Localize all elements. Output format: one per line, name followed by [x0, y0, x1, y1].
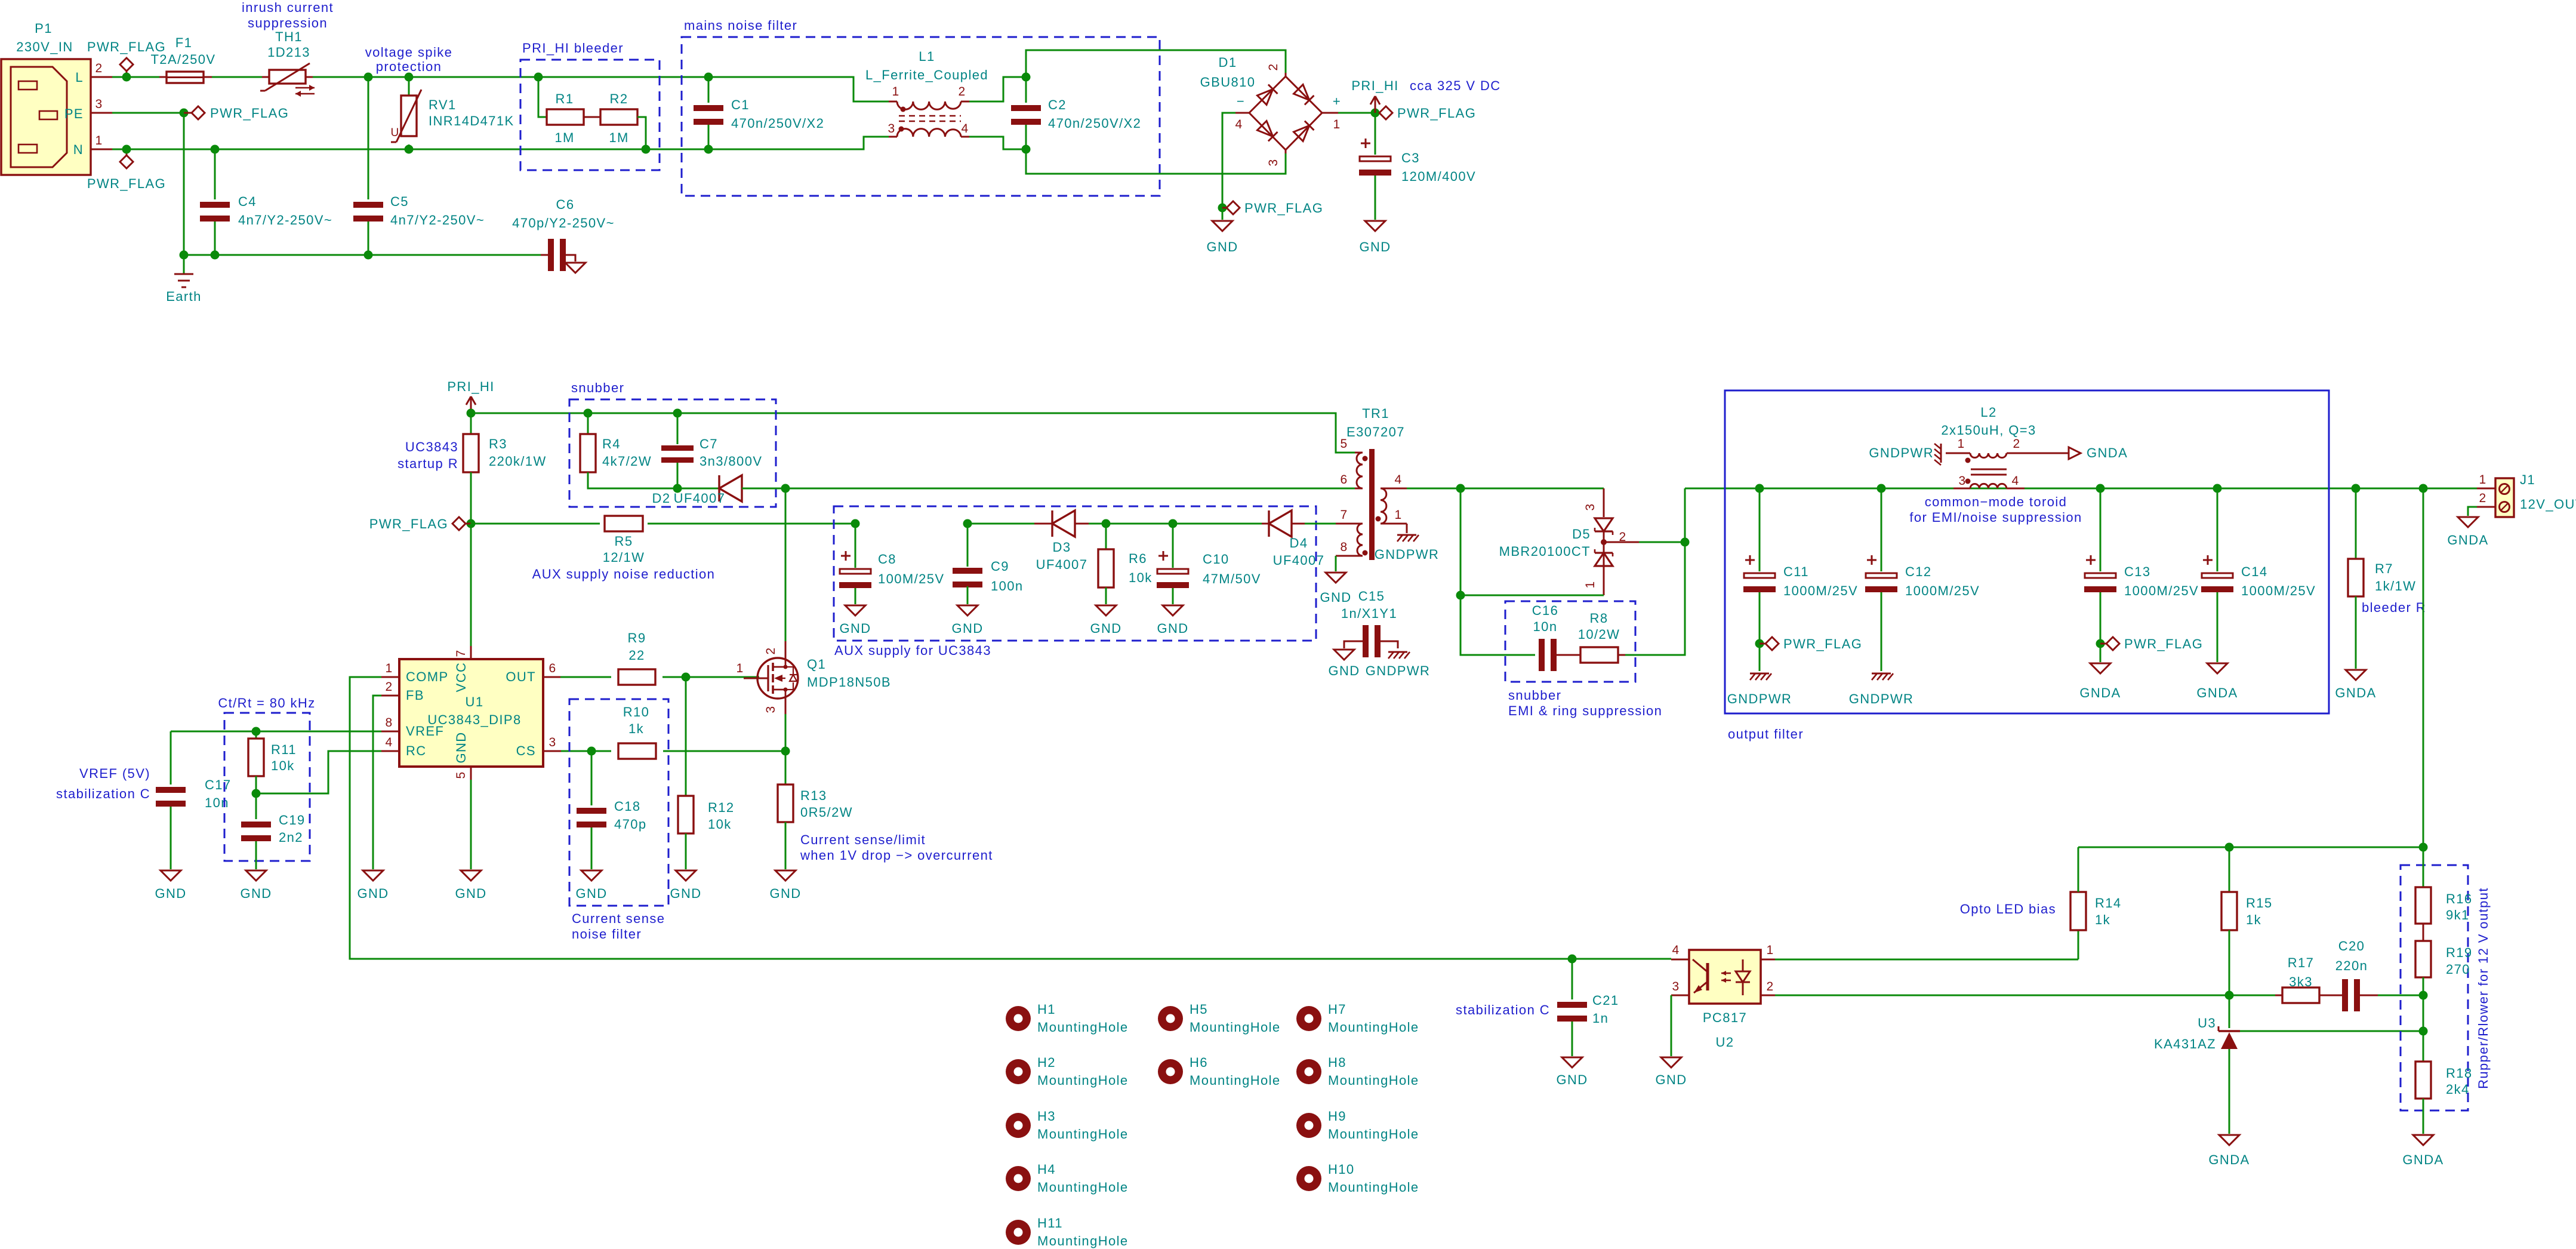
svg-text:H9: H9	[1328, 1109, 1346, 1124]
svg-text:1M: 1M	[554, 130, 574, 145]
svg-text:Ct/Rt = 80 kHz: Ct/Rt = 80 kHz	[218, 696, 315, 710]
wire L P1 to F1	[112, 76, 159, 78]
svg-text:inrush current: inrush current	[242, 0, 334, 15]
capacitor C3 120M/400V	[1360, 156, 1391, 161]
svg-text:GNDA: GNDA	[2208, 1152, 2250, 1167]
svg-text:GNDPWR: GNDPWR	[1727, 691, 1792, 706]
svg-text:H2: H2	[1037, 1055, 1056, 1070]
ground GNDPWR at TR1 pin1	[1406, 524, 1408, 533]
svg-text:R2: R2	[610, 91, 628, 106]
svg-text:3: 3	[1672, 980, 1680, 993]
junction C10 top	[1169, 519, 1178, 528]
resistor R6 10k	[1105, 524, 1107, 549]
svg-text:R10: R10	[623, 705, 650, 719]
svg-text:5: 5	[1340, 437, 1348, 451]
resistor R18 2k4	[2415, 1062, 2431, 1099]
svg-text:EMI & ring suppression: EMI & ring suppression	[1508, 703, 1662, 718]
capacitor C2 470n/250V/X2	[1025, 77, 1027, 103]
svg-text:10n: 10n	[205, 795, 229, 810]
svg-text:C15: C15	[1358, 589, 1385, 604]
wire RC to R11	[256, 751, 381, 793]
power flag PWR_FLAG on N	[126, 149, 128, 156]
svg-text:R16: R16	[2446, 891, 2473, 906]
svg-text:R15: R15	[2246, 896, 2273, 910]
svg-text:GNDPWR: GNDPWR	[1375, 547, 1440, 562]
svg-text:PWR_FLAG: PWR_FLAG	[1397, 106, 1476, 121]
svg-text:D3: D3	[1053, 540, 1071, 555]
wire Q1 source to CS node	[785, 714, 787, 751]
svg-text:MountingHole: MountingHole	[1037, 1073, 1129, 1088]
svg-text:CS: CS	[516, 743, 536, 758]
mounting hole H4	[1006, 1166, 1031, 1191]
diode D3 UF4007	[967, 523, 1034, 525]
svg-text:3: 3	[764, 705, 778, 713]
wire C2 to bridge AC bottom	[1026, 149, 1286, 174]
svg-text:C6: C6	[556, 197, 575, 212]
ground GND at C15 left	[1334, 650, 1354, 660]
junction C11 pwrflag	[1755, 639, 1764, 648]
resistor R17 3k3	[2275, 995, 2282, 996]
capacitor C8 100M/25V	[851, 519, 860, 528]
wire switch node to TR1 pin6	[785, 488, 1355, 490]
ground GND under C19	[246, 870, 266, 881]
wire bridge plus to C3	[1338, 112, 1381, 114]
power flag PWR_FLAG on L	[126, 70, 128, 77]
wire top feedback row	[2078, 847, 2423, 848]
junction R6 top	[1102, 519, 1111, 528]
svg-text:GND: GND	[1655, 1072, 1687, 1087]
svg-text:Opto LED bias: Opto LED bias	[1960, 902, 2056, 916]
wire D5 pin1 to secondary node	[1460, 595, 1604, 596]
capacitor C20 220n	[2319, 995, 2342, 996]
wire aux rail C9 to D3	[647, 519, 649, 521]
svg-text:when 1V drop −> overcurrent: when 1V drop −> overcurrent	[800, 848, 993, 863]
svg-text:PWR_FLAG: PWR_FLAG	[1244, 201, 1323, 216]
svg-text:1: 1	[2479, 473, 2486, 487]
junction R15 to pin2 row	[2225, 991, 2234, 1000]
svg-text:3n3/800V: 3n3/800V	[700, 454, 762, 469]
svg-text:L2: L2	[1980, 405, 1996, 420]
svg-text:22: 22	[628, 648, 645, 663]
svg-text:R17: R17	[2288, 955, 2315, 970]
svg-text:2x150uH, Q=3: 2x150uH, Q=3	[1941, 423, 2036, 438]
junction C1 bottom	[704, 145, 713, 154]
svg-text:C1: C1	[731, 97, 750, 112]
wire CS row	[561, 750, 611, 752]
svg-text:12/1W: 12/1W	[603, 550, 645, 565]
svg-text:1n: 1n	[1592, 1011, 1609, 1026]
svg-text:bleeder R: bleeder R	[2362, 600, 2426, 615]
svg-text:PWR_FLAG: PWR_FLAG	[1783, 636, 1862, 651]
svg-text:C8: C8	[878, 552, 896, 567]
svg-text:MountingHole: MountingHole	[1190, 1020, 1281, 1035]
svg-text:R12: R12	[708, 800, 735, 815]
svg-text:H5: H5	[1190, 1002, 1208, 1017]
svg-text:MountingHole: MountingHole	[1037, 1233, 1129, 1248]
svg-text:mains noise filter: mains noise filter	[684, 18, 797, 33]
svg-text:FB: FB	[406, 688, 424, 703]
svg-text:H8: H8	[1328, 1055, 1346, 1070]
junction gate node	[682, 673, 691, 682]
svg-text:1: 1	[385, 662, 393, 675]
svg-text:C17: C17	[205, 777, 232, 792]
svg-text:1000M/25V: 1000M/25V	[2124, 583, 2199, 598]
dashed box Rupper/Rlower	[2401, 865, 2468, 1110]
svg-text:GND: GND	[951, 621, 983, 636]
junction earth PE	[180, 251, 189, 260]
svg-text:4: 4	[2011, 474, 2019, 488]
svg-text:UC3843_DIP8: UC3843_DIP8	[427, 712, 521, 727]
resistor R3 220k/1W	[470, 413, 472, 434]
svg-text:GND: GND	[839, 621, 871, 636]
wire feedback column	[2423, 488, 2424, 847]
svg-text:VCC: VCC	[454, 662, 469, 693]
capacitor C4 4n7/Y2-250V~	[214, 149, 216, 199]
dashed box Ct/Rt	[224, 713, 310, 861]
svg-text:U1: U1	[466, 694, 484, 709]
svg-text:1k: 1k	[628, 721, 644, 736]
svg-text:2: 2	[2013, 437, 2020, 451]
svg-text:U2: U2	[1716, 1035, 1734, 1050]
svg-text:270: 270	[2446, 962, 2470, 977]
svg-text:C16: C16	[1532, 603, 1559, 618]
resistor R10 1k	[618, 743, 656, 759]
junction VCC node	[467, 519, 476, 528]
svg-text:Rupper/Rlower for 12 V output: Rupper/Rlower for 12 V output	[2476, 887, 2491, 1089]
svg-text:GND: GND	[240, 886, 272, 901]
svg-text:100n: 100n	[991, 579, 1024, 593]
capacitor C21 1n	[1572, 959, 1573, 999]
svg-text:10/2W: 10/2W	[1578, 627, 1620, 642]
svg-text:120M/400V: 120M/400V	[1401, 169, 1476, 184]
svg-text:MountingHole: MountingHole	[1037, 1127, 1129, 1142]
svg-text:C14: C14	[2241, 564, 2268, 579]
solid box output filter	[1725, 390, 2329, 713]
capacitor C7 3n3/800V	[677, 413, 679, 444]
ground GND under bridge	[1212, 221, 1232, 231]
wire output node up to rail	[1684, 488, 1686, 542]
capacitor C19 2n2	[255, 793, 257, 819]
power symbol GNDA under C14	[2207, 663, 2227, 673]
junction C20 node	[2419, 991, 2428, 1000]
svg-text:GND: GND	[155, 886, 186, 901]
svg-text:C12: C12	[1905, 564, 1932, 579]
ground GND under R13	[775, 870, 796, 881]
ground GND under C10	[1163, 605, 1183, 616]
capacitor C10 47M/50V	[1172, 524, 1174, 568]
svg-text:C9: C9	[991, 559, 1009, 574]
svg-text:for EMI/noise suppression: for EMI/noise suppression	[1909, 510, 2082, 525]
svg-text:1k/1W: 1k/1W	[2375, 579, 2416, 593]
wire R6 to C10	[1106, 523, 1173, 525]
svg-text:3: 3	[888, 122, 895, 136]
junction D5 pin1 node	[1456, 591, 1465, 600]
dashed box PRI_HI bleeder	[520, 60, 660, 170]
junction C1 top	[704, 73, 713, 82]
resistor R11 10k	[255, 731, 257, 739]
svg-text:GNDPWR: GNDPWR	[1366, 663, 1431, 678]
wire U2 pin1 to R14	[1775, 959, 2078, 961]
bridge rectifier D1 GBU810	[1285, 73, 1287, 76]
resistor R4 4k7/2W	[587, 413, 589, 434]
junction PRI_HI node	[1371, 109, 1380, 118]
svg-text:1n/X1Y1: 1n/X1Y1	[1341, 606, 1397, 621]
svg-text:AUX supply noise reduction: AUX supply noise reduction	[532, 567, 716, 582]
svg-text:GND: GND	[1556, 1072, 1588, 1087]
resistor R16 9k1	[2423, 847, 2424, 887]
varistor RV1 INR14D471K	[408, 77, 410, 96]
mounting hole H5	[1158, 1006, 1183, 1031]
svg-text:10k: 10k	[1129, 570, 1153, 585]
svg-text:GND: GND	[1320, 590, 1351, 605]
svg-text:PE: PE	[64, 106, 84, 121]
wire U3 ref	[2240, 1030, 2423, 1032]
dashed box snubber	[569, 399, 776, 507]
svg-text:C10: C10	[1203, 552, 1230, 567]
svg-text:2k4: 2k4	[2446, 1082, 2470, 1097]
svg-text:D4: D4	[1290, 536, 1308, 550]
svg-text:R6: R6	[1129, 551, 1147, 566]
wire secondary node down	[1460, 488, 1535, 655]
svg-text:L1: L1	[919, 49, 935, 64]
svg-text:1: 1	[1333, 118, 1341, 131]
svg-text:2: 2	[764, 647, 778, 654]
dashed box AUX supply	[834, 506, 1316, 641]
svg-text:C21: C21	[1592, 993, 1619, 1008]
junction C18 tap	[587, 747, 596, 756]
svg-text:stabilization C: stabilization C	[56, 786, 150, 801]
svg-text:GND: GND	[357, 886, 389, 901]
svg-text:COMP: COMP	[406, 669, 449, 684]
svg-text:R13: R13	[800, 788, 827, 803]
svg-text:C13: C13	[2124, 564, 2151, 579]
svg-text:9k1: 9k1	[2446, 907, 2470, 922]
svg-text:4: 4	[385, 736, 393, 749]
junction minus gnd	[1218, 204, 1227, 213]
junction C7 bottom	[673, 484, 682, 493]
wire bridge minus to GND	[1222, 113, 1235, 220]
svg-text:output filter: output filter	[1728, 727, 1804, 742]
svg-text:UC3843: UC3843	[405, 439, 458, 454]
ground GND under C3	[1365, 221, 1385, 231]
svg-text:PRI_HI: PRI_HI	[447, 379, 494, 394]
svg-text:220k/1W: 220k/1W	[489, 454, 547, 469]
svg-text:3: 3	[549, 736, 556, 749]
wire snubber right leg	[1625, 542, 1685, 655]
svg-text:stabilization C: stabilization C	[1456, 1002, 1550, 1017]
power flag PWR_FLAG at C11	[1760, 643, 1766, 645]
ground GND under C18	[581, 870, 602, 881]
capacitor C1 470n/250V/X2	[708, 77, 710, 103]
dashed box snubber EMI	[1505, 601, 1635, 682]
svg-text:GND: GND	[769, 886, 801, 901]
svg-text:PWR_FLAG: PWR_FLAG	[369, 516, 448, 531]
svg-text:common−mode toroid: common−mode toroid	[1925, 494, 2067, 509]
svg-text:4n7/Y2-250V~: 4n7/Y2-250V~	[238, 213, 332, 227]
svg-text:2: 2	[958, 85, 966, 99]
svg-text:12V_OUT: 12V_OUT	[2520, 497, 2576, 512]
ground GND at C6	[565, 263, 586, 273]
power flag PWR_FLAG at PRI_HI	[1379, 106, 1392, 119]
svg-text:1: 1	[1583, 580, 1597, 588]
svg-text:T2A/250V: T2A/250V	[150, 52, 215, 67]
junction R15 top	[2225, 843, 2234, 852]
svg-text:−: −	[1237, 94, 1245, 109]
svg-text:3: 3	[1583, 503, 1597, 510]
mounting hole H11	[1006, 1220, 1031, 1245]
resistor R9 22	[560, 676, 611, 678]
svg-text:4: 4	[1394, 473, 1402, 487]
power symbol GNDA under R7	[2346, 670, 2366, 680]
svg-text:8: 8	[385, 716, 393, 730]
svg-text:Current sense: Current sense	[572, 911, 665, 926]
wire J1 pin2 to GNDA	[2468, 507, 2477, 516]
svg-text:C20: C20	[2338, 939, 2365, 953]
svg-text:C7: C7	[700, 436, 718, 451]
junction R4 top	[584, 409, 593, 418]
svg-text:suppression: suppression	[248, 16, 328, 30]
inductor L1 L_Ferrite_Coupled	[897, 101, 961, 109]
svg-text:MDP18N50B: MDP18N50B	[807, 675, 891, 690]
svg-text:MountingHole: MountingHole	[1328, 1180, 1419, 1195]
svg-text:UF4007: UF4007	[1036, 557, 1088, 572]
svg-text:L: L	[75, 70, 84, 85]
svg-text:R18: R18	[2446, 1066, 2473, 1081]
svg-text:PRI_HI: PRI_HI	[1351, 78, 1398, 93]
svg-text:MountingHole: MountingHole	[1328, 1073, 1419, 1088]
junction source node	[781, 747, 790, 756]
capacitor C18 470p	[591, 751, 593, 805]
svg-text:PWR_FLAG: PWR_FLAG	[87, 176, 166, 191]
svg-text:7: 7	[454, 649, 468, 657]
wire VREF line	[171, 731, 381, 733]
svg-text:1k: 1k	[2095, 912, 2110, 927]
svg-text:0R5/2W: 0R5/2W	[800, 805, 853, 820]
ground GND at FB	[363, 870, 383, 881]
junction earth C5	[364, 251, 373, 260]
wire U2 pin3 to GND	[1671, 995, 1672, 1056]
svg-text:3k3: 3k3	[2289, 974, 2313, 989]
svg-text:R7: R7	[2375, 561, 2393, 576]
ground GNDPWR at L2 pin1	[1934, 444, 1941, 465]
svg-text:KA431AZ: KA431AZ	[2154, 1036, 2216, 1051]
mounting hole H9	[1296, 1113, 1321, 1138]
ground GND at U2 pin3	[1661, 1057, 1681, 1068]
svg-text:1k: 1k	[2246, 912, 2261, 927]
capacitor C11 1000M/25V	[1755, 484, 1764, 493]
svg-text:4k7/2W: 4k7/2W	[602, 454, 652, 469]
junction feedback column	[2419, 484, 2428, 493]
optocoupler U2 PC817	[1689, 950, 1761, 1004]
svg-text:GND: GND	[1090, 621, 1121, 636]
junction D2 to drain	[781, 484, 790, 493]
svg-text:GND: GND	[1328, 663, 1360, 678]
ground GNDPWR under C11	[1750, 673, 1769, 675]
svg-text:4: 4	[1235, 118, 1243, 131]
mounting hole H1	[1006, 1006, 1031, 1031]
dashed box mains noise filter	[682, 37, 1160, 196]
svg-text:1: 1	[736, 662, 744, 675]
capacitor C5 4n7/Y2-250V~	[368, 77, 369, 199]
svg-text:470p/Y2-250V~: 470p/Y2-250V~	[512, 216, 615, 230]
svg-text:MBR20100CT: MBR20100CT	[1499, 544, 1591, 559]
svg-text:cca 325 V DC: cca 325 V DC	[1410, 78, 1501, 93]
svg-text:GNDA: GNDA	[2087, 445, 2128, 460]
wire N line	[112, 137, 889, 149]
capacitor C17 10n	[170, 731, 172, 785]
svg-text:GNDA: GNDA	[2079, 685, 2121, 700]
svg-text:Earth: Earth	[166, 289, 202, 304]
svg-text:C5: C5	[390, 194, 409, 209]
svg-text:MountingHole: MountingHole	[1328, 1127, 1419, 1142]
wire TR1 pin4 to secondary node	[1407, 488, 1460, 490]
wire PE	[112, 113, 184, 255]
junction R11 top	[252, 727, 261, 736]
wire secondary node to D5	[1460, 488, 1604, 490]
junction R3 top	[467, 409, 476, 418]
wire output rail	[1685, 488, 2477, 490]
svg-text:1: 1	[1957, 437, 1965, 451]
wire D5 output	[1604, 542, 1639, 543]
ground GND at TR1 pin8	[1326, 573, 1346, 583]
svg-text:H11: H11	[1037, 1216, 1063, 1230]
svg-text:P1: P1	[35, 21, 53, 36]
svg-text:470n/250V/X2: 470n/250V/X2	[1048, 116, 1141, 131]
svg-text:MountingHole: MountingHole	[1328, 1020, 1419, 1035]
svg-text:R11: R11	[271, 742, 297, 757]
svg-text:U: U	[390, 127, 399, 139]
ground GNDPWR under C12	[1872, 673, 1891, 675]
power symbol PRI_HI arrow at bridge	[1375, 97, 1376, 113]
svg-text:10k: 10k	[271, 758, 295, 773]
svg-text:R5: R5	[615, 534, 633, 549]
wire FB to GND	[373, 696, 381, 869]
wire VCC node down to U1 pin7	[470, 524, 472, 646]
svg-text:4: 4	[961, 122, 969, 136]
svg-text:J1: J1	[2520, 472, 2535, 487]
resistor R2 1M	[584, 116, 600, 118]
junction RV1 bottom	[405, 145, 414, 154]
svg-text:U3: U3	[2198, 1016, 2216, 1030]
svg-text:PC817: PC817	[1703, 1010, 1747, 1025]
junction RV1 top	[405, 73, 414, 82]
svg-text:TR1: TR1	[1362, 406, 1389, 421]
svg-text:UF4007: UF4007	[674, 491, 726, 506]
wire U2 pin2 row	[1775, 995, 2275, 996]
svg-text:100M/25V: 100M/25V	[878, 571, 945, 586]
ground GNDPWR at C15 right	[1388, 651, 1407, 653]
svg-text:2: 2	[2479, 491, 2486, 505]
svg-text:2n2: 2n2	[279, 830, 303, 845]
resistor R1 1M	[538, 77, 547, 117]
resistor R8 10/2W	[1557, 654, 1580, 656]
svg-text:Current sense/limit: Current sense/limit	[800, 832, 926, 847]
svg-text:voltage spike: voltage spike	[365, 45, 453, 60]
connector P1 230V_IN	[1, 59, 91, 175]
ground GND under C9	[957, 605, 978, 616]
svg-text:E307207: E307207	[1346, 424, 1405, 439]
svg-text:6: 6	[549, 662, 556, 675]
earth symbol	[183, 255, 185, 273]
svg-text:GBU810: GBU810	[1200, 75, 1256, 90]
svg-text:1: 1	[1394, 508, 1402, 522]
svg-text:GND: GND	[1206, 239, 1238, 254]
resistor R19 270	[2423, 924, 2424, 941]
junction secondary node	[1456, 484, 1465, 493]
svg-text:3: 3	[1267, 158, 1280, 166]
svg-text:RC: RC	[406, 743, 427, 758]
svg-text:GND: GND	[455, 886, 486, 901]
